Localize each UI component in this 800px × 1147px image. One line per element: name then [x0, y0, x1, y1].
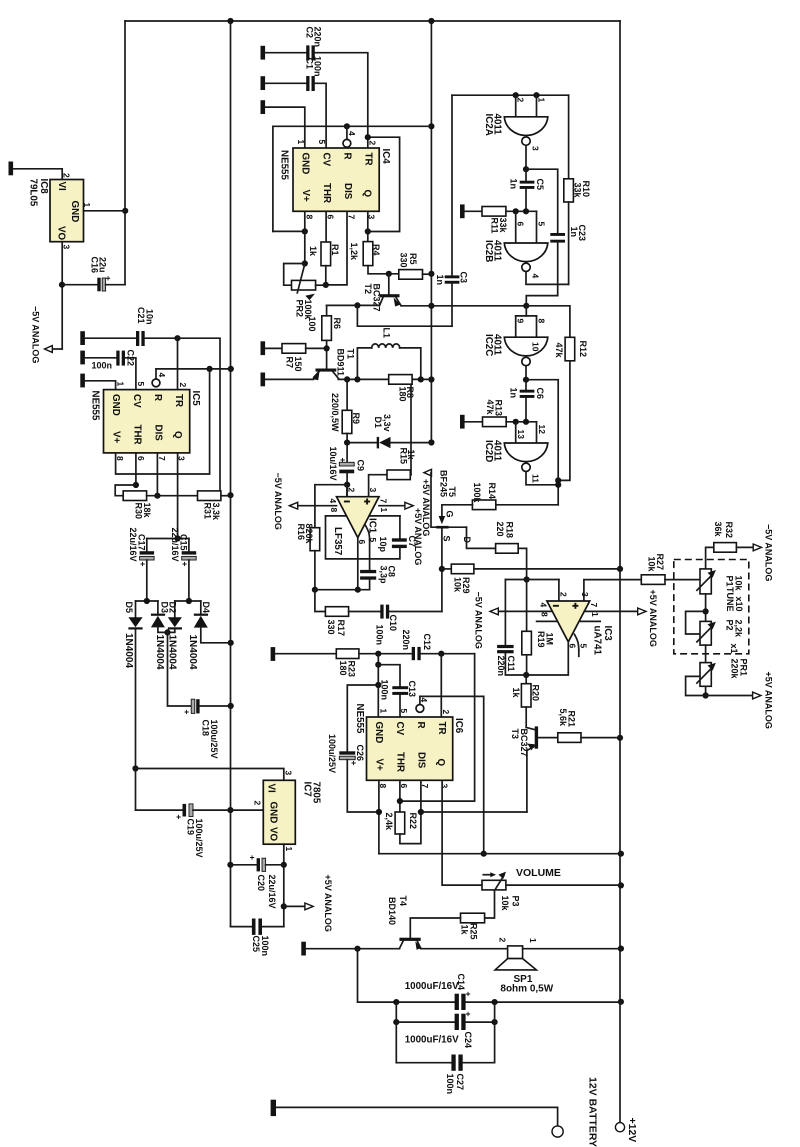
capacitor C7 10p — [378, 536, 417, 553]
svg-text:+: + — [180, 562, 190, 567]
wire C2 to TR pin2 of IC4 — [315, 53, 368, 148]
svg-text:R5: R5 — [408, 253, 418, 265]
svg-text:+: + — [247, 855, 257, 860]
wire C24 left node — [393, 1002, 399, 1063]
ground — [80, 331, 85, 345]
svg-text:+5V ANALOG: +5V ANALOG — [323, 875, 333, 932]
svg-text:100n: 100n — [260, 936, 270, 957]
wire pin6 down — [355, 538, 361, 593]
svg-text:C13: C13 — [407, 681, 417, 698]
svg-text:GND: GND — [110, 394, 121, 416]
svg-text:100n: 100n — [374, 625, 384, 646]
capacitor C26 100u/25V — [327, 685, 379, 812]
wire T2 emitter to bus — [401, 305, 431, 307]
wire bus x=431 — [430, 21, 432, 443]
wire IC2A output — [523, 145, 529, 172]
svg-text:−5V ANALOG: −5V ANALOG — [30, 306, 40, 363]
wire IC2D output — [526, 472, 561, 488]
svg-text:PR1: PR1 — [738, 659, 748, 677]
capacitor C19 100u/25V — [174, 804, 263, 858]
svg-text:150: 150 — [293, 357, 303, 372]
transistor T2 BC327 — [363, 274, 401, 312]
svg-text:22u: 22u — [98, 257, 108, 273]
svg-text:220/0,5W: 220/0,5W — [330, 393, 340, 432]
ground — [261, 100, 266, 114]
ground — [271, 647, 276, 661]
svg-text:+: + — [182, 710, 192, 715]
wire D5 to C19 line — [136, 809, 183, 811]
wire C24/C14 right riser — [463, 1002, 495, 1063]
capacitor C27 100n — [396, 1055, 465, 1095]
svg-text:C25: C25 — [251, 936, 261, 953]
diode D4 1N4004 — [187, 601, 231, 670]
svg-text:x1: x1 — [729, 644, 739, 654]
svg-text:6: 6 — [136, 456, 146, 461]
resistor R1 1k — [308, 242, 340, 266]
svg-text:Q: Q — [361, 190, 372, 198]
resistor R4 1,2k — [349, 242, 381, 266]
diode D5 1N4004 — [123, 601, 142, 810]
capacitor C22 100n — [85, 350, 136, 390]
svg-text:−5V ANALOG: −5V ANALOG — [473, 592, 483, 649]
svg-text:5: 5 — [578, 644, 588, 649]
resistor R15 1k — [387, 448, 416, 480]
svg-text:8: 8 — [304, 215, 314, 220]
svg-text:220n: 220n — [401, 630, 411, 651]
wire bus x=230 — [230, 21, 232, 927]
svg-text:3: 3 — [283, 771, 293, 776]
ground — [80, 374, 85, 388]
capacitor C24 1000uF/16V — [396, 1012, 497, 1049]
svg-text:D5: D5 — [124, 602, 134, 614]
wire P1 bottom node with wiper loop — [686, 594, 709, 634]
svg-text:1N4004: 1N4004 — [187, 635, 198, 670]
capacitor C13 100n — [378, 665, 417, 717]
wire Q pin3 down — [175, 453, 181, 542]
resistor R11 33k — [465, 207, 537, 234]
svg-text:R8: R8 — [405, 387, 415, 399]
wire IC2A input rail — [452, 92, 569, 98]
svg-text:C18: C18 — [200, 720, 210, 737]
power +5V ANALOG output arrow — [284, 875, 333, 932]
wire C-out to R14 node — [526, 380, 558, 505]
svg-text:NE555: NE555 — [89, 391, 100, 422]
svg-text:4: 4 — [157, 373, 167, 378]
svg-text:LF357: LF357 — [332, 527, 343, 556]
wire T5 source down to C10/R29 node — [439, 529, 445, 612]
resistor R23 180 — [275, 649, 412, 677]
svg-text:T4: T4 — [398, 896, 408, 907]
svg-text:IC5: IC5 — [190, 391, 201, 407]
resistor R16 820k — [296, 524, 320, 593]
svg-text:R17: R17 — [336, 620, 346, 637]
svg-text:C19: C19 — [185, 819, 195, 836]
wire T1 collector node line — [338, 376, 431, 382]
svg-text:DIS: DIS — [342, 183, 353, 200]
potentiometer P3 10k VOLUME — [482, 867, 561, 912]
wire IC2A input pins — [516, 95, 537, 117]
svg-text:S: S — [441, 536, 451, 542]
regulator IC7 7805 — [252, 771, 321, 852]
svg-text:C26: C26 — [355, 745, 365, 762]
svg-text:5,6k: 5,6k — [558, 709, 568, 728]
op-amp IC1 LF357 triangle — [328, 485, 389, 556]
svg-text:1: 1 — [82, 203, 92, 208]
wire TR to Q feedback loop — [365, 134, 400, 235]
wire IC2B input pins — [516, 211, 537, 243]
ground — [301, 942, 306, 956]
svg-text:4: 4 — [419, 698, 429, 703]
svg-text:3,3k: 3,3k — [211, 503, 221, 522]
trimmer PR1 220k — [686, 645, 749, 699]
wire +12V bus x=620 — [619, 21, 621, 1123]
wire P3 wiper to R25 — [485, 891, 495, 918]
resistor R18 220 — [495, 522, 530, 583]
svg-text:VO: VO — [55, 226, 66, 241]
svg-text:C24: C24 — [463, 1032, 473, 1049]
svg-text:IC3: IC3 — [602, 626, 613, 642]
wire ground node down to C14 rail — [358, 949, 400, 1006]
wire T4 emitter to SP1 — [421, 948, 508, 950]
svg-text:100: 100 — [307, 317, 317, 332]
wire IC2C input fork — [516, 306, 537, 337]
svg-text:10k: 10k — [646, 557, 656, 573]
power -5V ANALOG arrow at pin4 — [273, 473, 337, 530]
wire T1 emitter to ground — [265, 378, 313, 380]
wire pin3 to R15 — [369, 475, 387, 497]
svg-text:1k: 1k — [459, 925, 469, 936]
svg-text:7: 7 — [589, 603, 599, 608]
diode D2 1N4004 — [164, 601, 182, 670]
wire R1 bottom — [323, 266, 329, 288]
svg-text:+12V: +12V — [626, 1118, 638, 1143]
svg-text:L1: L1 — [381, 328, 391, 339]
svg-text:R27: R27 — [655, 554, 665, 571]
svg-text:R20: R20 — [530, 685, 540, 702]
svg-text:1000uF/16V: 1000uF/16V — [405, 981, 459, 992]
resistor R20 1k — [511, 675, 541, 727]
svg-text:V+: V+ — [110, 431, 121, 444]
wire IC4 frame top (pin4 R rail) — [273, 123, 432, 231]
wire IC7 VO down — [281, 844, 287, 926]
capacitor C23 1n — [526, 225, 587, 306]
pin8 stub — [537, 620, 557, 622]
svg-text:D2: D2 — [167, 602, 177, 614]
svg-text:10k: 10k — [452, 577, 462, 593]
svg-text:x10: x10 — [734, 597, 744, 612]
resistor R29 10k — [442, 564, 620, 593]
svg-text:C22: C22 — [125, 350, 135, 367]
svg-text:1: 1 — [590, 612, 600, 617]
resistor R7 150 — [265, 344, 327, 372]
wire IC2B output to R10 — [526, 272, 569, 285]
svg-text:1: 1 — [284, 847, 294, 852]
wire THR pin6 node — [397, 780, 403, 812]
transistor T1 BD911 — [312, 349, 355, 381]
wire TR pin2 of IC6 — [440, 654, 442, 717]
nand gate IC2C — [483, 319, 548, 366]
resistor R14 100k — [442, 483, 558, 516]
pin1 stub — [369, 515, 400, 517]
pin5 curve stub — [574, 634, 578, 656]
dashed TUNE box — [674, 560, 749, 654]
svg-text:2,2k: 2,2k — [733, 620, 743, 639]
svg-text:8: 8 — [536, 319, 546, 324]
svg-text:C27: C27 — [455, 1074, 465, 1091]
ground — [261, 46, 266, 60]
power +5V ANALOG feed to T5 source — [421, 469, 436, 536]
diode D3 1N4004 — [151, 601, 170, 670]
resistor R25 1k — [410, 913, 484, 939]
svg-text:BD140: BD140 — [387, 897, 397, 925]
svg-text:12: 12 — [537, 425, 547, 435]
trimmer P1 10k — [697, 569, 744, 612]
svg-text:C10: C10 — [388, 615, 398, 632]
svg-text:C23: C23 — [577, 225, 587, 242]
svg-text:V+: V+ — [300, 190, 311, 203]
wire C9 node to R16 — [315, 485, 347, 528]
capacitor C21 10n — [85, 307, 181, 346]
wire IC8 input — [13, 169, 62, 180]
capacitor C8 3,3p — [315, 566, 397, 590]
capacitor C11 220n — [496, 645, 526, 676]
svg-text:R29: R29 — [461, 577, 471, 594]
wire T2 collector node — [327, 302, 380, 308]
wire DIS node to T3 emitter — [421, 811, 527, 813]
svg-text:2: 2 — [61, 173, 71, 178]
wire GND pin1 riser of IC6 — [375, 654, 381, 717]
svg-text:D4: D4 — [201, 602, 211, 614]
svg-text:+: + — [174, 815, 184, 820]
capacitor C6 1n — [508, 380, 545, 422]
svg-text:4011: 4011 — [491, 114, 502, 136]
wire IC6 R pin rail — [420, 696, 487, 856]
wire IC8 VO down — [59, 242, 65, 349]
speaker SP1 8ohm 0,5W — [495, 938, 621, 995]
fet T5 BF245 — [436, 470, 472, 544]
resistor R30 18k — [123, 491, 197, 519]
svg-text:1: 1 — [378, 709, 388, 714]
svg-text:−5V ANALOG: −5V ANALOG — [763, 524, 773, 581]
svg-text:1000uF/16V: 1000uF/16V — [405, 1034, 459, 1045]
svg-text:GND: GND — [69, 201, 80, 223]
wire IC8 GND to bus — [84, 210, 126, 212]
pin1 stub — [579, 620, 600, 622]
nand gate IC2B — [483, 222, 548, 279]
wire IC4 frame bottom to V+ pin8 — [273, 228, 308, 234]
resistor R27 10k — [641, 554, 700, 585]
svg-text:220: 220 — [495, 522, 505, 537]
svg-text:1n: 1n — [508, 179, 518, 190]
svg-text:C5: C5 — [535, 179, 545, 191]
svg-text:4011: 4011 — [491, 334, 502, 356]
svg-text:5: 5 — [317, 140, 327, 145]
wire B-out/C-in rail — [431, 303, 529, 309]
svg-text:1k: 1k — [308, 246, 318, 257]
svg-text:2: 2 — [515, 98, 525, 103]
svg-text:GND: GND — [299, 153, 310, 175]
svg-text:uA741: uA741 — [591, 626, 602, 656]
svg-text:3: 3 — [530, 146, 540, 151]
svg-text:C3: C3 — [458, 272, 468, 284]
svg-text:GND: GND — [373, 722, 384, 744]
capacitor C3 1n — [435, 95, 469, 326]
svg-text:820k: 820k — [304, 524, 314, 545]
resistor R19 1M — [522, 580, 555, 679]
power +5V ANALOG arrow at IC3 pin7 — [584, 590, 658, 647]
wire ground to GND pin1 of IC5 — [85, 381, 116, 390]
svg-text:4: 4 — [347, 131, 357, 136]
capacitor C2 220n — [265, 27, 322, 61]
svg-text:6: 6 — [515, 222, 525, 227]
svg-text:33k: 33k — [498, 218, 508, 234]
wire Q pin3 of IC6 down to P3 — [442, 780, 482, 885]
svg-text:R21: R21 — [566, 711, 576, 728]
svg-text:7: 7 — [378, 499, 388, 504]
nand gate IC2A — [483, 98, 548, 152]
svg-text:R22: R22 — [408, 813, 418, 830]
svg-text:C6: C6 — [535, 388, 545, 400]
svg-text:8: 8 — [539, 612, 549, 617]
svg-text:R32: R32 — [724, 522, 734, 539]
svg-text:R23: R23 — [346, 661, 356, 678]
wire IC5 R pin rail to bus — [156, 366, 231, 372]
resistor R22 2,4k — [384, 780, 424, 843]
svg-text:IC6: IC6 — [453, 718, 464, 734]
svg-text:2,4k: 2,4k — [384, 813, 394, 832]
wire T5 drain to R18 — [467, 527, 496, 548]
wire diode rail left — [136, 598, 158, 604]
resistor R17 330 — [315, 590, 380, 636]
wire V+ pin8 rail — [116, 369, 210, 474]
capacitor C16 22u — [62, 257, 125, 292]
wire C1 to CV pin5 of IC4 — [315, 83, 326, 148]
wire C12 rail to THR loop — [400, 654, 475, 801]
svg-text:T1: T1 — [345, 349, 355, 360]
svg-text:C7: C7 — [407, 536, 417, 548]
resistor R13 47k — [465, 400, 537, 427]
capacitor C20 22u/16V — [230, 855, 283, 909]
svg-text:R30: R30 — [133, 503, 143, 520]
resistor R32 36k — [706, 522, 754, 569]
svg-text:1: 1 — [115, 382, 125, 387]
power -5V ANALOG arrow at IC3 pin4 — [473, 592, 552, 649]
svg-text:1N4004: 1N4004 — [154, 635, 165, 670]
wire V+ pin8 node — [376, 780, 382, 853]
pin4 R bubble of IC6 — [416, 696, 424, 712]
wire pin6 to R19/C11 node — [526, 642, 568, 675]
svg-text:100u/25V: 100u/25V — [194, 819, 204, 858]
svg-text:5: 5 — [399, 709, 409, 714]
svg-text:2: 2 — [497, 938, 507, 943]
svg-text:330: 330 — [326, 620, 336, 635]
svg-text:P1: P1 — [724, 576, 734, 587]
svg-text:IC4: IC4 — [380, 149, 391, 165]
svg-text:THR: THR — [321, 183, 332, 203]
power +5V ANALOG arrow at pin7 — [379, 502, 423, 565]
svg-text:D1: D1 — [373, 417, 383, 429]
svg-text:8: 8 — [329, 508, 339, 513]
svg-text:47k: 47k — [485, 400, 495, 416]
svg-text:Q: Q — [435, 759, 446, 767]
svg-text:BC327: BC327 — [371, 284, 381, 312]
svg-text:3: 3 — [439, 784, 449, 789]
resistor R8 180 — [389, 375, 415, 402]
resistor R31 3,3k — [198, 491, 231, 521]
resistor R5 330 — [398, 253, 422, 280]
power -5V ANALOG (top-left arrow) — [30, 306, 62, 363]
svg-text:7805: 7805 — [311, 782, 322, 804]
svg-text:CV: CV — [131, 394, 142, 408]
wire battery minus line — [276, 1107, 558, 1126]
node dots on buses — [122, 18, 624, 1005]
svg-text:1: 1 — [528, 938, 538, 943]
resistor R9 220/0,5W — [330, 379, 361, 462]
svg-text:2: 2 — [441, 710, 451, 715]
wire diode rail right — [175, 598, 201, 604]
svg-text:100n: 100n — [379, 680, 389, 701]
svg-text:C9: C9 — [355, 460, 365, 472]
wire ground to GND pin1 of IC4 — [265, 107, 305, 148]
capacitor C9 10u/16V — [328, 447, 366, 497]
svg-text:R11: R11 — [489, 218, 499, 234]
svg-text:R19: R19 — [536, 631, 546, 648]
svg-text:R31: R31 — [202, 503, 212, 520]
svg-text:220n: 220n — [496, 656, 506, 677]
svg-text:3,3v: 3,3v — [382, 414, 392, 432]
svg-text:1M: 1M — [544, 633, 554, 646]
svg-text:22u/16V: 22u/16V — [128, 528, 138, 562]
svg-text:+: + — [463, 992, 473, 997]
svg-text:220k: 220k — [729, 659, 739, 680]
svg-text:+: + — [463, 1012, 473, 1017]
ground — [261, 341, 266, 355]
svg-text:C21: C21 — [136, 307, 146, 324]
svg-text:R6: R6 — [332, 318, 342, 330]
svg-text:R7: R7 — [284, 357, 294, 369]
svg-text:R14: R14 — [487, 483, 497, 500]
svg-text:100n: 100n — [92, 361, 113, 371]
svg-text:10k: 10k — [733, 576, 743, 592]
capacitor C25 100n — [231, 919, 284, 957]
op-amp IC3 uA741 triangle — [538, 592, 613, 655]
svg-text:2: 2 — [367, 141, 377, 146]
wire Q pin3 down — [367, 211, 369, 241]
svg-text:VI: VI — [56, 182, 67, 192]
svg-text:T3: T3 — [510, 729, 520, 740]
ground — [261, 76, 266, 90]
pin 4 R inversion bubble — [343, 126, 351, 147]
wire R4 to T2 base node — [368, 266, 399, 277]
svg-text:G: G — [444, 511, 454, 518]
svg-text:+5V ANALOG: +5V ANALOG — [421, 479, 431, 536]
svg-text:47k: 47k — [554, 343, 564, 359]
capacitor C17 22u/16V — [128, 528, 154, 602]
zener diode D1 3,3v — [347, 414, 431, 448]
wire V+ pin8 down to PR2 node — [302, 211, 308, 266]
svg-text:NE555: NE555 — [354, 704, 365, 735]
wire D5 node to IC7 VI pin3 — [136, 769, 284, 781]
svg-text:C20: C20 — [256, 875, 266, 892]
svg-text:5: 5 — [136, 382, 146, 387]
svg-text:+: + — [138, 562, 148, 567]
svg-text:8ohm 0,5W: 8ohm 0,5W — [500, 983, 553, 994]
svg-text:1k: 1k — [406, 450, 416, 461]
svg-text:+: + — [349, 761, 359, 766]
svg-text:100u/25V: 100u/25V — [209, 720, 219, 759]
svg-text:1: 1 — [536, 98, 546, 103]
svg-text:BC327: BC327 — [519, 729, 529, 757]
